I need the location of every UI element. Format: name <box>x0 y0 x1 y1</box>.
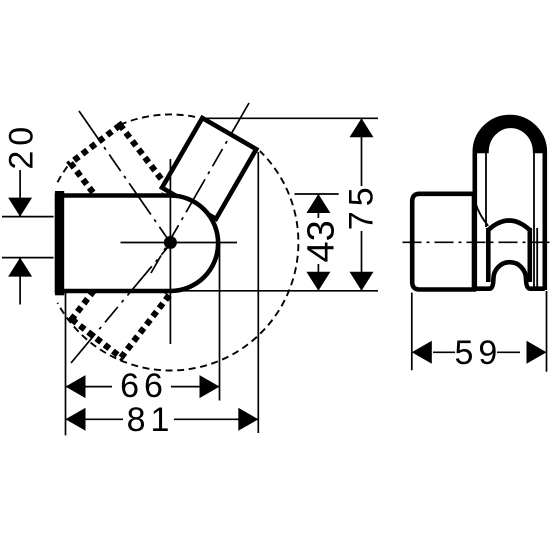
holder body (D shape) <box>57 196 218 292</box>
extension line right 66 <box>219 243 221 401</box>
alternate position barrel (dotted, down-left) <box>72 256 171 358</box>
arrow up 75 <box>350 118 374 137</box>
dim line 43 <box>317 194 319 218</box>
arrow down <box>8 198 32 217</box>
dim line 75 <box>361 118 363 186</box>
svg-text:75: 75 <box>343 182 381 230</box>
arrow down 43 <box>306 272 330 291</box>
bottom edge with front saddle bump <box>475 262 545 288</box>
extension line top 43 <box>295 193 339 195</box>
svg-text:81: 81 <box>127 401 175 439</box>
axis of up-left dotted barrel (dash-dot) <box>79 111 172 245</box>
extension line top <box>202 117 378 119</box>
plate-to-cup fillet curve <box>474 198 488 226</box>
dim line 59 <box>433 351 455 353</box>
arrow right 59 <box>527 341 547 364</box>
svg-text:20: 20 <box>2 122 40 170</box>
dim line 66 <box>66 386 112 388</box>
extension line left 59 <box>411 293 413 371</box>
axis of solid barrel (dash-dot) <box>151 103 249 273</box>
svg-text:59: 59 <box>454 334 502 372</box>
arrow right 81 <box>238 408 258 431</box>
slot edge left <box>486 228 491 282</box>
inner surface edge right <box>536 228 538 287</box>
saddle back arc <box>488 221 530 231</box>
alternate position barrel (dotted, up-left) <box>71 125 170 227</box>
svg-text:43: 43 <box>301 220 343 262</box>
holder cup outer silhouette <box>475 117 545 290</box>
swivel envelope dashed circle (clipped at wall) <box>58 114 299 370</box>
arrow left 66 <box>66 375 86 398</box>
extension line left <box>65 292 67 435</box>
vertical centerline <box>169 159 171 344</box>
horizontal centerline <box>121 242 238 244</box>
arrow up <box>8 258 32 277</box>
leader line upper <box>2 216 54 218</box>
arrow down 75 <box>350 272 374 291</box>
slot edge right <box>527 228 532 282</box>
centerline right view (dash-dot) <box>403 241 550 243</box>
dim line above <box>19 170 21 217</box>
extension line right 81 <box>257 152 259 433</box>
arrow left 59 <box>412 341 432 364</box>
extension line bottom <box>172 290 378 292</box>
cup rim (filled) <box>475 117 545 152</box>
dim line 81 <box>66 418 123 420</box>
svg-text:66: 66 <box>120 367 168 405</box>
arrow up 43 <box>306 194 330 213</box>
extension line right 59 <box>546 291 548 372</box>
axis of down-left dotted barrel (dash-dot) <box>71 235 178 363</box>
wall plate <box>412 194 474 290</box>
inner wall line left <box>485 150 487 227</box>
barrel in shown position (solid, up-right) <box>162 118 256 219</box>
inner wall line right <box>533 150 535 287</box>
pivot center dot <box>164 236 177 249</box>
wall plate edge bar <box>55 191 64 295</box>
leader line lower <box>2 257 54 259</box>
dim line below <box>19 258 21 305</box>
arrow left 81 <box>66 408 86 431</box>
arrow right 66 <box>200 375 220 398</box>
